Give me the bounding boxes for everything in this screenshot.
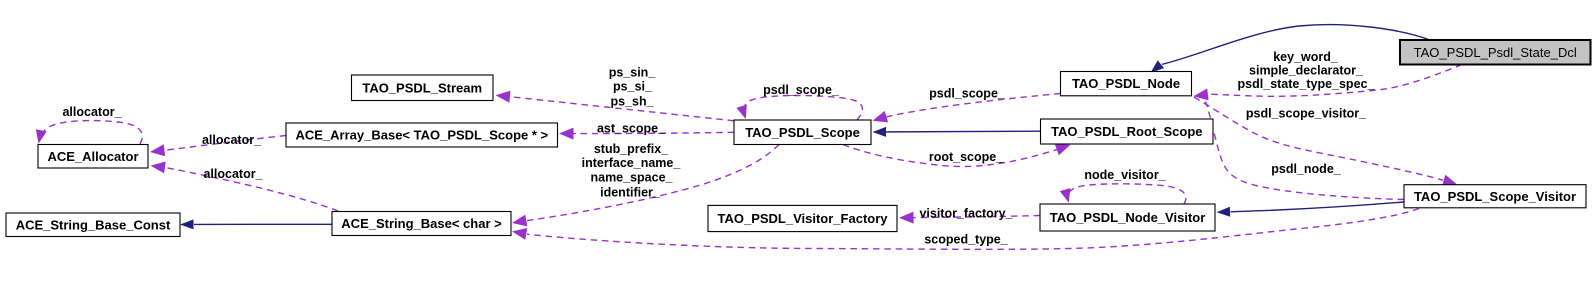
class box ACE_String_Base_char — [332, 212, 511, 236]
edge stub_prefix_/interface_name_/name_space_/identifier_ TAO_PSDL_Scope to ACE_String_Base — [512, 145, 779, 227]
edge psdl_node_ TAO_PSDL_Node to TAO_PSDL_Scope_Visitor — [1194, 97, 1458, 186]
svg-text:psdl_state_type_spec_: psdl_state_type_spec_ — [1238, 77, 1376, 91]
edge key_word_/simple_declarator_/psdl_state_type_spec_ TAO_PSDL_Psdl_State_Dcl to TAO_PSDL_Node — [1194, 65, 1463, 101]
svg-text:TAO_PSDL_Psdl_State_Dcl: TAO_PSDL_Psdl_State_Dcl — [1414, 45, 1577, 60]
svg-text:allocator_: allocator_ — [203, 167, 263, 181]
svg-text:ACE_Array_Base< TAO_PSDL_Scope: ACE_Array_Base< TAO_PSDL_Scope * > — [295, 128, 548, 143]
svg-text:ACE_Allocator: ACE_Allocator — [47, 149, 138, 164]
edge psdl_scope_visitor_ TAO_PSDL_Scope_Visitor to TAO_PSDL_Node — [1206, 102, 1405, 200]
class box TAO_PSDL_Visitor_Factory — [708, 205, 897, 231]
svg-text:TAO_PSDL_Node: TAO_PSDL_Node — [1072, 76, 1180, 91]
inheritance TAO_PSDL_Psdl_State_Dcl to TAO_PSDL_Node (solid) — [1151, 25, 1431, 73]
svg-text:TAO_PSDL_Visitor_Factory: TAO_PSDL_Visitor_Factory — [717, 211, 888, 226]
svg-text:ps_sh_: ps_sh_ — [610, 95, 654, 109]
svg-text:ast_scope_: ast_scope_ — [597, 122, 666, 136]
class box TAO_PSDL_Node_Visitor — [1040, 204, 1215, 231]
svg-text:TAO_PSDL_Node_Visitor: TAO_PSDL_Node_Visitor — [1050, 210, 1206, 225]
svg-text:ps_si_: ps_si_ — [613, 80, 653, 94]
svg-text:allocator_: allocator_ — [62, 105, 122, 119]
svg-text:ACE_String_Base_Const: ACE_String_Base_Const — [16, 217, 171, 232]
svg-text:TAO_PSDL_Root_Scope: TAO_PSDL_Root_Scope — [1051, 124, 1202, 139]
svg-text:TAO_PSDL_Stream: TAO_PSDL_Stream — [362, 80, 482, 95]
class box TAO_PSDL_Root_Scope — [1041, 119, 1214, 144]
svg-text:psdl_scope_: psdl_scope_ — [763, 83, 840, 97]
class box TAO_PSDL_Scope — [734, 120, 871, 145]
svg-text:TAO_PSDL_Scope_Visitor: TAO_PSDL_Scope_Visitor — [1414, 189, 1576, 204]
svg-text:node_visitor_: node_visitor_ — [1084, 168, 1166, 182]
svg-text:ACE_String_Base< char >: ACE_String_Base< char > — [341, 216, 502, 231]
class box ACE_Array_Base — [286, 123, 558, 147]
svg-text:psdl_node_: psdl_node_ — [1271, 162, 1342, 176]
svg-text:psdl_scope_: psdl_scope_ — [929, 87, 1006, 101]
class box TAO_PSDL_Scope_Visitor — [1404, 185, 1586, 208]
svg-text:name_space_: name_space_ — [590, 171, 673, 185]
edge psdl_scope_ self-loop on TAO_PSDL_Scope — [736, 95, 862, 120]
svg-text:scoped_type_: scoped_type_ — [924, 233, 1008, 247]
svg-text:visitor_factory_: visitor_factory_ — [919, 206, 1013, 220]
class box ACE_String_Base_Const — [6, 213, 180, 237]
svg-text:TAO_PSDL_Scope: TAO_PSDL_Scope — [745, 125, 860, 140]
edge ast_scope_ TAO_PSDL_Scope to ACE_Array_Base — [559, 128, 734, 140]
svg-text:psdl_scope_visitor_: psdl_scope_visitor_ — [1246, 107, 1367, 121]
svg-text:key_word_: key_word_ — [1273, 50, 1339, 64]
inheritance TAO_PSDL_Scope_Visitor to TAO_PSDL_Node_Visitor (solid) — [1217, 202, 1405, 217]
svg-text:ps_sin_: ps_sin_ — [609, 66, 657, 80]
edge node_visitor_ self-loop on TAO_PSDL_Node_Visitor — [1060, 184, 1186, 204]
edge scoped_type_ TAO_PSDL_Scope_Visitor to ACE_String_Base — [512, 209, 1419, 250]
svg-text:root_scope_: root_scope_ — [929, 150, 1004, 164]
svg-text:stub_prefix_: stub_prefix_ — [594, 142, 669, 156]
class box TAO_PSDL_Stream — [352, 75, 494, 101]
class box ACE_Allocator — [38, 145, 148, 169]
edge allocator_ self-loop on ACE_Allocator — [36, 121, 142, 144]
edge ps_sin_/ps_si_/ps_sh_ TAO_PSDL_Scope to TAO_PSDL_Stream — [496, 91, 735, 121]
class box TAO_PSDL_Node — [1061, 72, 1192, 96]
svg-text:interface_name_: interface_name_ — [582, 156, 682, 170]
inheritance TAO_PSDL_Root_Scope to TAO_PSDL_Scope (solid) — [873, 127, 1041, 137]
svg-text:identifier_: identifier_ — [600, 186, 661, 200]
inheritance ACE_String_Base to ACE_String_Base_Const (solid) — [180, 219, 332, 229]
svg-text:allocator_: allocator_ — [202, 133, 262, 147]
edge allocator_ ACE_Array_Base to ACE_Allocator — [150, 136, 286, 157]
svg-text:simple_declarator_: simple_declarator_ — [1249, 64, 1364, 78]
edge visitor_factory_ TAO_PSDL_Node_Visitor to TAO_PSDL_Visitor_Factory — [899, 212, 1040, 224]
edge allocator_ ACE_String_Base to ACE_Allocator — [151, 162, 339, 212]
edge psdl_scope_ TAO_PSDL_Node to TAO_PSDL_Scope — [873, 94, 1061, 123]
edge root_scope_ TAO_PSDL_Scope to TAO_PSDL_Root_Scope — [843, 144, 1071, 167]
class box TAO_PSDL_Psdl_State_Dcl (current class, gray) — [1400, 40, 1591, 65]
